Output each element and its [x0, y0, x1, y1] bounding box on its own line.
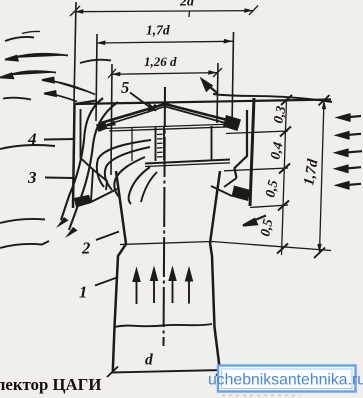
chain inner vertical — [282, 100, 287, 256]
streamline arrow striking cap right — [202, 80, 217, 94]
flow arc top-left tiny — [22, 31, 40, 33]
pipe flow arrow 2 — [151, 269, 157, 303]
inner box left edge — [131, 128, 133, 161]
pipe break wavy line — [115, 324, 213, 327]
chain tick y=100 — [281, 95, 292, 105]
wind arrow right 4 — [337, 166, 362, 172]
leader 1 — [95, 278, 117, 286]
cap right end bracket — [223, 115, 241, 131]
inner curl fan 4 — [129, 167, 150, 204]
streamline big S2 — [69, 102, 118, 230]
flow arc left a5 — [3, 98, 31, 100]
shell top left connector — [74, 101, 96, 105]
small tick below 2d line — [188, 11, 191, 17]
flow arrow left a6 — [44, 91, 77, 102]
extension line left 2d (also shell left wall top) — [74, 2, 76, 103]
svg-text:2: 2 — [81, 239, 90, 258]
flow arrow left a2 — [5, 54, 68, 61]
svg-text:лектор ЦАГИ: лектор ЦАГИ — [0, 375, 101, 394]
svg-text:3: 3 — [27, 168, 37, 187]
inner curl fan 5 — [141, 172, 157, 202]
chain connector y=169 — [224, 168, 288, 171]
inner box right edge — [211, 126, 213, 160]
svg-text:5: 5 — [121, 78, 129, 97]
pipe flow arrow 3 — [170, 269, 176, 303]
flow dash lower-left d2 — [0, 219, 45, 223]
shell left outer wall — [73, 103, 75, 208]
wind arrow right 5 — [338, 182, 362, 188]
leader 2 — [96, 232, 119, 241]
cap under edge line — [104, 124, 233, 129]
arrowhead on cap lower edge striking left bracket — [103, 121, 116, 128]
shell right bottom lip — [232, 186, 251, 202]
horizontal reference line at cap apex level — [74, 100, 331, 105]
flow arc top-left small — [5, 37, 34, 41]
flow arc crossing ext line — [80, 60, 111, 63]
skirt diagonal left — [91, 189, 117, 202]
inner curl fan 3 — [114, 157, 145, 198]
cap umbrella right slope — [165, 104, 233, 122]
pipe left wall — [113, 244, 126, 371]
leader 5 — [130, 93, 156, 113]
flow arrow into gap a4 — [42, 78, 95, 95]
bottom dimension line d — [112, 370, 223, 373]
flow dash lower-left d1 — [0, 145, 55, 149]
pipe flow arrow 4 — [186, 270, 192, 304]
shell right outer wall — [250, 98, 254, 206]
inner curl fan 1 — [97, 140, 151, 187]
shell right inner wall — [235, 110, 248, 178]
dimension line 2d — [75, 11, 254, 12]
pipe right wall — [210, 243, 220, 367]
extension line left 1,26d — [111, 64, 112, 175]
arrowhead S1 — [56, 217, 69, 228]
cap under band second line — [109, 127, 231, 131]
flow arrow left a3 — [0, 71, 56, 78]
flow arrow under shell right — [243, 216, 266, 226]
faint scan dots under watermark — [222, 395, 300, 397]
joint line pipe to chain bottom — [120, 242, 331, 251]
shell left bottom lip — [74, 195, 92, 208]
pipe flow arrow 1 — [134, 270, 140, 304]
svg-text:2d: 2d — [179, 0, 195, 10]
svg-text:uchebniksantehnika.ru: uchebniksantehnika.ru — [208, 372, 363, 389]
stem hatch — [157, 134, 163, 157]
diffuser cone left edge — [116, 171, 126, 244]
chain outer vertical 1,7d — [320, 100, 325, 253]
shell left inner wall — [81, 109, 94, 201]
arrowhead S2 — [65, 227, 78, 238]
skirt diagonal right — [211, 186, 232, 196]
watermark box — [208, 366, 363, 392]
dimension line 1,7d — [97, 41, 234, 43]
diffuser cone right edge — [210, 171, 220, 243]
svg-text:1,26 d: 1,26 d — [144, 54, 177, 69]
wind arrow right 1 — [339, 114, 362, 120]
chain connector y=206 — [250, 205, 288, 208]
svg-text:d: d — [145, 352, 153, 369]
extension line left 1,7d — [96, 34, 97, 121]
cap umbrella left slope — [101, 104, 165, 123]
inner curl fan 2 — [105, 147, 150, 190]
support bracket right — [224, 178, 237, 187]
extension line right 1,26d — [217, 63, 218, 123]
centerline dash-dot — [164, 87, 166, 346]
extension line right 1,7d — [232, 32, 234, 127]
diffuser exit double line — [145, 160, 230, 164]
leader 4 — [44, 138, 75, 141]
wind arrow right 2 — [338, 132, 362, 138]
svg-text:1: 1 — [79, 283, 87, 302]
cap left end bracket — [96, 122, 108, 133]
chain connector y=132 — [226, 131, 288, 134]
leader 3 — [45, 177, 73, 180]
svg-text:1,7d: 1,7d — [146, 23, 170, 38]
support bracket left (diffuser to shell) — [93, 170, 107, 191]
streamline over cap to right — [213, 94, 332, 102]
flow dash lower-left d3 — [0, 241, 49, 248]
streamline big S1 around shell left — [61, 98, 103, 220]
center stem plate — [156, 127, 165, 161]
dimension line 1,26d — [112, 73, 218, 75]
wind arrow right 3 — [337, 150, 363, 156]
